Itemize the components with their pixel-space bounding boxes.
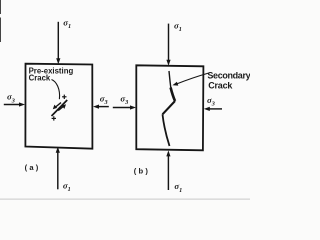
sigma1 top arrow (b) [166,24,170,66]
shear arrow upper-left [53,103,61,110]
sigma1 top arrow (a) [56,22,60,64]
svg-text:(a): (a) [25,163,41,172]
scanner edge artifact top-left [0,0,1,42]
plus at lower crack tip [52,116,56,120]
svg-text:Crack: Crack [208,80,233,90]
box (a) [25,64,92,149]
sigma1 bottom arrow (a) [56,147,60,190]
sigma3 left arrow (b) [113,105,136,109]
faint bottom rule [0,199,250,200]
svg-text:Secondary: Secondary [207,71,250,81]
leader curve to pre-existing crack [52,80,60,100]
plus at upper crack tip [62,95,66,99]
sigma3 left arrow (a) [4,102,25,106]
pre-existing crack line [52,100,68,116]
box (b) [136,65,203,150]
svg-text:Crack: Crack [29,74,51,83]
secondary crack curve [163,71,176,146]
leader arrow to secondary crack [172,73,208,86]
sigma3 right arrow (a) [93,105,109,109]
svg-text:(b): (b) [134,166,150,175]
sigma1 bottom arrow (b) [166,150,170,190]
shear arrow lower-right [58,104,66,110]
sigma3 right arrow (b) [204,107,222,111]
